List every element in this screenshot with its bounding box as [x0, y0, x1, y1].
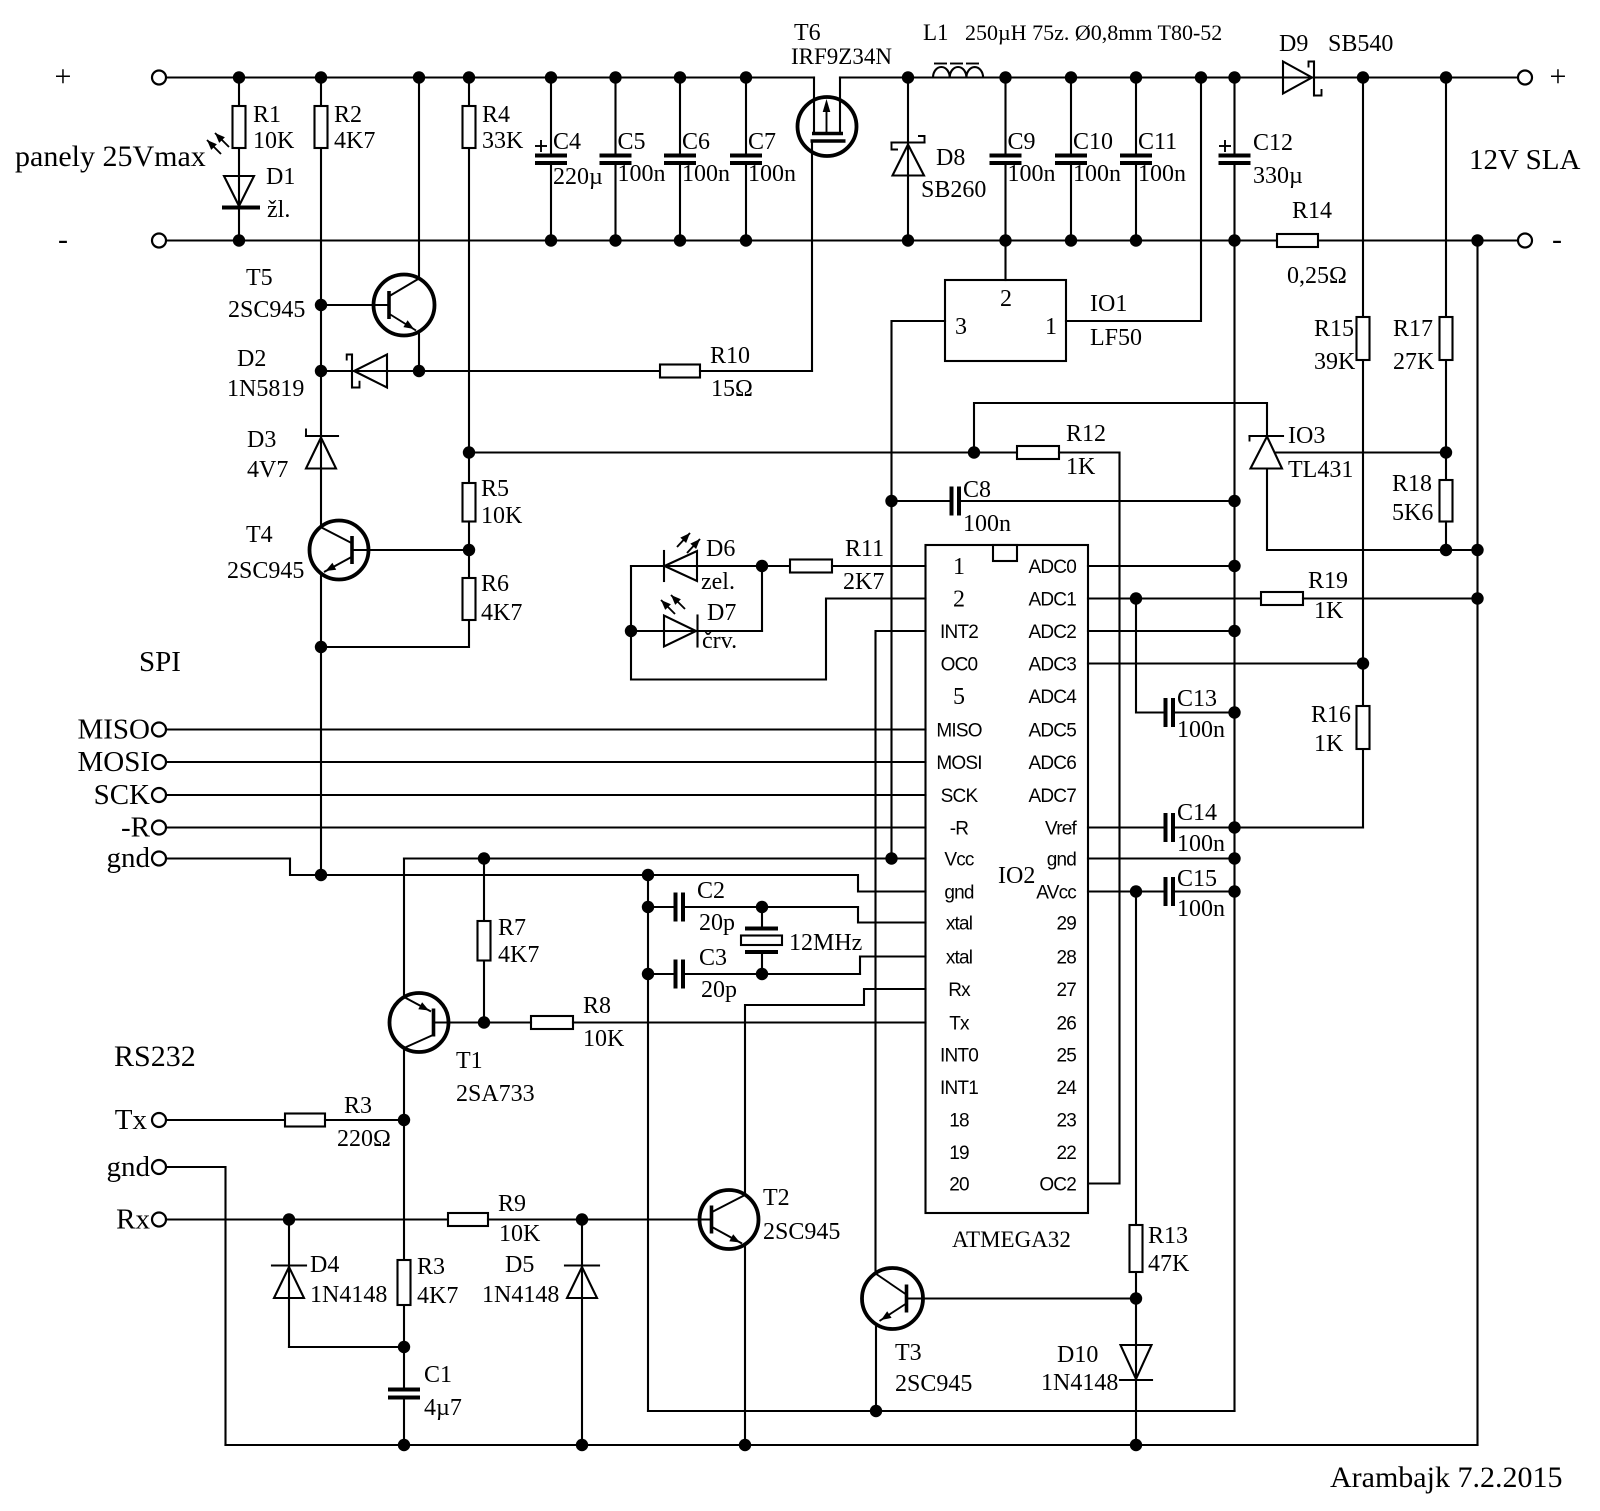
svg-text:D5: D5 [505, 1252, 534, 1278]
wire: T1 collector down to RS232 Tx node and R3 (4K7) [403, 1048, 405, 1260]
junction: T5 base node [315, 299, 327, 311]
svg-text:D2: D2 [237, 346, 266, 372]
wire: AVcc node down to R13 [1135, 892, 1137, 1226]
junction on - rail at x=551 [545, 234, 557, 246]
junction on + rail at x=419 [413, 71, 425, 83]
resistor R2 [320, 78, 322, 107]
junction: C14 right on analog ground column [1228, 821, 1240, 833]
wire: feedback row R5-R12 [469, 451, 1017, 453]
svg-text:R11: R11 [845, 536, 884, 562]
junction on - rail at x=1234.5 [1228, 234, 1240, 246]
capacitor C7 100n [745, 78, 747, 154]
svg-text:1K: 1K [1314, 731, 1344, 757]
terminal: SPI -R [152, 821, 166, 835]
wire: D4 anode to C1 node [289, 1346, 404, 1348]
svg-text:2SC945: 2SC945 [895, 1371, 972, 1397]
svg-text:gnd: gnd [944, 883, 974, 904]
svg-text:Vcc: Vcc [944, 850, 974, 871]
transistor T5 2SC945 [374, 275, 435, 336]
svg-text:20p: 20p [701, 977, 737, 1003]
wire: INT2 pin left and down to T3 collector [876, 631, 926, 1274]
svg-text:ADC6: ADC6 [1029, 753, 1077, 774]
svg-text:25: 25 [1056, 1046, 1076, 1067]
svg-text:100n: 100n [618, 161, 666, 187]
svg-text:C12: C12 [1253, 130, 1293, 156]
svg-text:xtal: xtal [946, 948, 972, 969]
svg-text:D8: D8 [936, 145, 965, 171]
junction on - rail at x=239 [233, 234, 245, 246]
junction on + rail at x=239 [233, 71, 245, 83]
svg-text:MISO: MISO [936, 721, 981, 742]
wire: IO3 anode down and right to ground return [1267, 469, 1478, 551]
junction on + rail at x=615.5 [609, 71, 621, 83]
wire: R9 to T2 base [488, 1218, 712, 1220]
junction: TL431 ref node (R17/R18) [1440, 446, 1452, 458]
svg-text:R15: R15 [1314, 316, 1354, 342]
svg-text:250µH 75z. Ø0,8mm T80-52: 250µH 75z. Ø0,8mm T80-52 [965, 20, 1222, 45]
junction: T3 emitter on ground bus [870, 1405, 882, 1417]
svg-text:C2: C2 [697, 878, 725, 904]
svg-text:29: 29 [1056, 914, 1076, 935]
wire: ADC3 row to R15/R16 divider [1088, 662, 1363, 664]
svg-text:4µ7: 4µ7 [424, 1395, 462, 1421]
terminal: RS232 Rx [152, 1213, 166, 1227]
wire: ADC1 row to R19 [1088, 597, 1261, 599]
svg-text:12V SLA: 12V SLA [1469, 144, 1581, 176]
svg-text:100n: 100n [682, 161, 730, 187]
svg-text:LF50: LF50 [1090, 325, 1142, 351]
svg-text:Rx: Rx [116, 1204, 150, 1236]
svg-text:22: 22 [1056, 1143, 1076, 1164]
junction: R4/R5/feedback node [463, 446, 475, 458]
svg-text:+: + [55, 60, 72, 93]
capacitor C6 100n [679, 78, 681, 154]
svg-text:C10: C10 [1073, 129, 1113, 155]
svg-text:D9: D9 [1279, 31, 1308, 57]
svg-text:27K: 27K [1393, 349, 1435, 375]
svg-text:MOSI: MOSI [936, 753, 981, 774]
svg-text:1K: 1K [1314, 598, 1344, 624]
svg-text:R2: R2 [334, 102, 362, 128]
wire: C2/C3 ground column [647, 875, 649, 1411]
terminal: SPI gnd [152, 852, 166, 866]
junction on - rail at x=1071 [1065, 234, 1077, 246]
terminal: SPI MISO [152, 723, 166, 737]
capacitor C4 220µ [550, 78, 552, 154]
svg-text:xtal: xtal [946, 914, 972, 935]
resistor R8 10K [531, 1016, 573, 1029]
junction on + rail at x=680 [674, 71, 686, 83]
junction: D10 at bottom rail [1130, 1439, 1142, 1451]
junction: D7 anode node on left riser [625, 625, 637, 637]
svg-text:R7: R7 [498, 915, 526, 941]
svg-text:C11: C11 [1138, 129, 1177, 155]
svg-text:1N5819: 1N5819 [227, 376, 304, 402]
svg-text:10K: 10K [583, 1026, 625, 1052]
terminal: RS232 Tx [152, 1113, 166, 1127]
resistor R16 1K [1362, 664, 1364, 707]
svg-text:0,25Ω: 0,25Ω [1287, 263, 1347, 289]
junction: R7 top on Vcc row [478, 852, 490, 864]
wire: TL431 branch loop up and right [974, 403, 1267, 453]
junction on + rail at x=1201 [1195, 71, 1207, 83]
svg-text:100n: 100n [1138, 161, 1186, 187]
terminal: SPI SCK [152, 788, 166, 802]
wire: + rail right segment (after T6, through L1 and D9 to battery +) [840, 76, 1518, 78]
transistor T1 2SA733 (PNP) [390, 993, 449, 1052]
wire: - rail left segment [166, 239, 1277, 241]
svg-text:47K: 47K [1148, 1251, 1190, 1277]
junction on + rail at x=1136 [1130, 71, 1142, 83]
junction on + rail at x=908 [902, 71, 914, 83]
wire: Vcc row from T1 emitter corner to IO2 Vcc pin [404, 857, 926, 859]
svg-text:R16: R16 [1311, 702, 1351, 728]
svg-text:ADC7: ADC7 [1029, 786, 1077, 807]
svg-text:C13: C13 [1177, 686, 1217, 712]
terminal: panel - input [152, 234, 166, 248]
svg-text:D7: D7 [707, 600, 736, 626]
svg-text:SB260: SB260 [921, 177, 986, 203]
junction on - rail at x=1005.5 [999, 234, 1011, 246]
capacitor C13 100n [1164, 698, 1168, 727]
svg-text:R8: R8 [583, 993, 611, 1019]
svg-text:D10: D10 [1057, 1342, 1098, 1368]
junction: D2 anode-side node on R2 column [315, 365, 327, 377]
wire: SPI MISO row to IO2 [166, 728, 926, 730]
svg-text:5: 5 [953, 684, 965, 710]
wire: T2 emitter to bottom rail [744, 1244, 746, 1445]
svg-text:-R: -R [121, 812, 151, 844]
wire: R15 to ADC3 node [1362, 360, 1364, 664]
svg-text:C4: C4 [553, 129, 581, 155]
svg-text:MISO: MISO [77, 714, 150, 746]
capacitor C15 100n [1164, 877, 1168, 906]
wire: R3 bottom to C1 [403, 1305, 405, 1388]
wire: bottom ground rail [226, 1444, 1478, 1446]
wire: ADC0 row [1088, 565, 1235, 567]
wire: SPI SCK row to IO2 [166, 794, 926, 796]
junction on + rail at x=1005.5 [999, 71, 1011, 83]
svg-text:220Ω: 220Ω [337, 1126, 391, 1152]
svg-text:20: 20 [949, 1175, 969, 1196]
shunt regulator IO3 TL431 (zener symbol) [1250, 435, 1284, 437]
diode D9 SB540 (battery isolation) [1283, 62, 1312, 94]
wire: - rail right segment (after R14) [1318, 239, 1518, 241]
svg-text:D3: D3 [247, 427, 276, 453]
svg-text:C6: C6 [682, 129, 710, 155]
svg-text:R14: R14 [1292, 198, 1332, 224]
junction: T2 emitter at bottom rail [739, 1439, 751, 1451]
svg-text:2SA733: 2SA733 [456, 1081, 535, 1107]
svg-text:Tx: Tx [949, 1014, 970, 1035]
LED D7 (red) [664, 616, 696, 647]
svg-text:IO1: IO1 [1090, 291, 1127, 317]
junction on - rail at x=680 [674, 234, 686, 246]
junction: crystal bottom node [756, 968, 768, 980]
svg-text:Rx: Rx [948, 980, 971, 1001]
svg-text:2SC945: 2SC945 [227, 558, 304, 584]
wire: xtal1 jog into IO2 [858, 907, 926, 923]
svg-text:R1: R1 [253, 102, 281, 128]
svg-text:-: - [1552, 223, 1562, 256]
wire: + input rail left segment (panel side) [166, 76, 814, 78]
wire: IO1 pin3 (output Vcc) left and down to Vcc row [892, 321, 946, 859]
svg-text:1N4148: 1N4148 [1041, 1370, 1118, 1396]
wire: R11 to IO2 pin 1 [832, 565, 926, 567]
svg-text:10K: 10K [253, 128, 295, 154]
svg-text:C15: C15 [1177, 866, 1217, 892]
svg-text:2K7: 2K7 [843, 569, 884, 595]
junction on + rail at x=746 [740, 71, 752, 83]
svg-text:RS232: RS232 [114, 1040, 196, 1073]
terminal: panel + input [152, 71, 166, 85]
wire: xtal2 jog into IO2 [860, 957, 926, 975]
wire: D6-D7 right riser [761, 566, 763, 631]
svg-text:T1: T1 [456, 1048, 483, 1074]
junction: Vcc row at riser [885, 852, 897, 864]
svg-text:R3: R3 [417, 1254, 445, 1280]
wire: R7 to T1 base node [483, 961, 485, 1023]
svg-text:2SC945: 2SC945 [763, 1219, 840, 1245]
svg-text:4K7: 4K7 [481, 600, 522, 626]
resistor R13 47K [1130, 1225, 1143, 1272]
svg-text:10K: 10K [481, 503, 523, 529]
svg-text:100n: 100n [963, 511, 1011, 537]
IC IO1 LF50 voltage regulator [945, 280, 1066, 361]
svg-text:5K6: 5K6 [1392, 500, 1433, 526]
junction: T4 base / R5-R6 divider node [463, 544, 475, 556]
junction: ADC2 at analog ground column [1228, 625, 1240, 637]
IC IO2 ATMEGA32 body [926, 545, 1089, 1213]
svg-text:23: 23 [1056, 1111, 1076, 1132]
svg-text:T4: T4 [246, 522, 273, 548]
junction on + rail at x=321 [315, 71, 327, 83]
svg-text:R13: R13 [1148, 1223, 1188, 1249]
wire: R4 down to feedback row (crosses D2 row) [468, 148, 470, 483]
junction: D2 cathode-row node at T5 emitter [413, 365, 425, 377]
capacitor C2 20p [648, 906, 674, 908]
svg-text:R5: R5 [481, 476, 509, 502]
wire: C1 to bottom rail [403, 1400, 405, 1446]
svg-text:T6: T6 [794, 20, 821, 46]
wire: SPI MOSI row to IO2 [166, 761, 926, 763]
svg-text:Tx: Tx [115, 1104, 148, 1136]
svg-text:10K: 10K [499, 1221, 541, 1247]
svg-text:2: 2 [953, 587, 965, 613]
svg-text:ADC2: ADC2 [1029, 622, 1077, 643]
wire: IO2 right gnd pin row [1088, 857, 1235, 859]
junction: ADC1 / C13 branch node [1130, 592, 1142, 604]
svg-text:2: 2 [1000, 286, 1012, 312]
svg-text:R6: R6 [481, 571, 509, 597]
svg-text:gnd: gnd [107, 842, 151, 874]
svg-text:4K7: 4K7 [417, 1283, 458, 1309]
diode D5 1N4148 [581, 1220, 583, 1446]
svg-text:zel.: zel. [701, 569, 735, 595]
svg-text:1N4148: 1N4148 [482, 1282, 559, 1308]
label: C12 + polarity mark [1219, 145, 1231, 147]
resistor R5 [463, 483, 476, 522]
svg-text:20p: 20p [699, 910, 735, 936]
wire: right ground return column [1476, 241, 1478, 1446]
diode D8 SB260 (freewheel, cathode up) [907, 78, 909, 241]
svg-text:ADC5: ADC5 [1029, 721, 1077, 742]
wire: R18 bottom to IO3 anode row [1445, 522, 1447, 551]
capacitor C11 100n [1135, 78, 1137, 154]
resistor R4 [468, 78, 470, 107]
svg-text:ADC0: ADC0 [1029, 557, 1077, 578]
resistor R19 1K [1261, 592, 1303, 605]
wire: R17 to TL431 ref node [1445, 360, 1447, 453]
junction: D4 top node [283, 1213, 295, 1225]
junction: Tx node at T1 collector [398, 1114, 410, 1126]
svg-text:ADC4: ADC4 [1029, 687, 1078, 708]
resistor R17 27K [1445, 78, 1447, 318]
wire: SPI gnd row with jog to IO2 gnd pin [166, 859, 926, 892]
svg-text:3: 3 [955, 314, 967, 340]
transistor T2 2SC945 [700, 1190, 759, 1249]
resistor R10 [660, 365, 700, 378]
wire: analog ground column from - rail down to bottom ground bus [1233, 241, 1235, 1412]
svg-text:SPI: SPI [139, 646, 181, 678]
svg-text:100n: 100n [1073, 161, 1121, 187]
capacitor C3 20p [648, 973, 674, 975]
wire: T5 emitter down to D2 node [418, 332, 420, 372]
svg-text:gnd: gnd [1047, 850, 1077, 871]
wire: ADC2 row [1088, 630, 1235, 632]
svg-text:R18: R18 [1392, 471, 1432, 497]
junction: T1 base / R8 node [478, 1016, 490, 1028]
svg-text:4K7: 4K7 [334, 128, 375, 154]
svg-text:INT2: INT2 [940, 622, 978, 643]
junction: R19 right on return column [1471, 592, 1483, 604]
junction: C1 at bottom rail [398, 1439, 410, 1451]
junction: AVcc / R13 branch node [1130, 885, 1142, 897]
wire: AVcc row [1088, 890, 1164, 892]
svg-text:INT1: INT1 [940, 1078, 978, 1099]
svg-text:OC2: OC2 [1039, 1175, 1076, 1196]
junction: gnd pin at analog ground column [1228, 852, 1240, 864]
svg-text:ADC3: ADC3 [1029, 655, 1077, 676]
svg-text:100n: 100n [1008, 161, 1056, 187]
wire: R2 down through T5 base node and D2 node to D3 [320, 148, 322, 528]
wire: D6/D7 left loop down to pin2 return [631, 566, 926, 680]
capacitor C8 100n [892, 500, 951, 502]
svg-text:INT0: INT0 [940, 1046, 978, 1067]
svg-text:AVcc: AVcc [1036, 883, 1076, 904]
svg-text:19: 19 [949, 1143, 969, 1164]
label: C4 + polarity mark [535, 145, 547, 147]
wire: R8 to IO2 Tx pin [573, 1021, 926, 1023]
resistor R3 220ohm (series Tx) [285, 1114, 325, 1127]
svg-text:100n: 100n [1177, 896, 1225, 922]
wire: Rx terminal to D4 node [166, 1218, 448, 1220]
junction on + rail at x=1071 [1065, 71, 1077, 83]
junction on + rail at x=1234.5 [1228, 71, 1240, 83]
junction on - rail at x=1136 [1130, 234, 1142, 246]
svg-text:OC0: OC0 [941, 655, 978, 676]
junction: ADC3 sense node [1357, 657, 1369, 669]
svg-text:1K: 1K [1066, 454, 1096, 480]
svg-text:-R: -R [950, 819, 969, 840]
svg-text:žl.: žl. [267, 197, 290, 223]
resistor R1 [238, 78, 240, 107]
svg-text:T3: T3 [895, 1340, 922, 1366]
svg-text:C3: C3 [699, 945, 727, 971]
svg-text:2SC945: 2SC945 [228, 297, 305, 323]
terminal: battery + output [1518, 71, 1532, 85]
svg-text:1N4148: 1N4148 [310, 1282, 387, 1308]
wire: IO2 Rx pin left, jog down, to T2 collector [745, 989, 926, 1193]
svg-text:ATMEGA32: ATMEGA32 [952, 1227, 1071, 1252]
svg-text:4V7: 4V7 [247, 457, 288, 483]
junction: C13 right on analog ground column [1228, 706, 1240, 718]
svg-text:R17: R17 [1393, 316, 1433, 342]
svg-text:TL431: TL431 [1288, 457, 1353, 483]
wire: R6 bottom to T4 emitter line [321, 620, 469, 647]
resistor R9 10K [448, 1213, 488, 1226]
resistor R3 4K7 (bias) [398, 1260, 411, 1305]
svg-text:Vref: Vref [1045, 819, 1077, 840]
svg-text:C14: C14 [1177, 800, 1217, 826]
wire: T5 collector up to + rail (crosses - rail) [418, 78, 420, 279]
svg-text:15Ω: 15Ω [711, 376, 753, 402]
svg-text:4K7: 4K7 [498, 942, 539, 968]
svg-text:33K: 33K [482, 128, 524, 154]
svg-text:-: - [58, 223, 68, 256]
resistor R14 shunt 0,25ohm [1277, 234, 1318, 247]
junction on + rail at x=551 [545, 71, 557, 83]
wire: RS232 gnd down to bottom rail [166, 1167, 226, 1445]
svg-text:R4: R4 [482, 102, 510, 128]
junction: C8 right on analog ground column [1228, 495, 1240, 507]
wire: T1 base node to R8 [484, 1021, 531, 1023]
svg-text:R19: R19 [1308, 568, 1348, 594]
junction: R6 return node on T4 emitter line [315, 641, 327, 653]
junction: D6/D7 right node [756, 560, 768, 572]
svg-text:D6: D6 [706, 536, 735, 562]
junction: feedback node to TL431 branch [968, 446, 980, 458]
capacitor C5 100n [614, 78, 616, 154]
junction: T3 base / R13 / D10 node [1130, 1292, 1142, 1304]
terminal: SPI MOSI [152, 755, 166, 769]
svg-text:ADC1: ADC1 [1029, 590, 1077, 611]
svg-text:Arambajk 7.2.2015: Arambajk 7.2.2015 [1330, 1461, 1562, 1494]
svg-text:C8: C8 [963, 477, 991, 503]
resistor R15 39K [1362, 78, 1364, 318]
svg-text:SCK: SCK [941, 786, 979, 807]
junction: C8 top on Vcc riser [885, 495, 897, 507]
wire: C13 branch from ADC1 node [1136, 599, 1164, 713]
resistor R18 5K6 [1445, 453, 1447, 481]
junction on - rail at x=746 [740, 234, 752, 246]
svg-text:L1: L1 [923, 20, 949, 45]
capacitor C9 100n [1004, 78, 1006, 154]
svg-text:SCK: SCK [94, 779, 150, 811]
svg-text:IO3: IO3 [1288, 423, 1325, 449]
svg-text:24: 24 [1056, 1078, 1077, 1099]
junction: IO3 anode row at R18 [1440, 544, 1452, 556]
resistor R6 [463, 578, 476, 620]
svg-text:27: 27 [1056, 980, 1076, 1001]
wire: R12 right, down to OC2 pin [1059, 453, 1120, 1184]
svg-text:C1: C1 [424, 1362, 452, 1388]
diode D2 1N5819 (Schottky, cathode left) [321, 370, 660, 372]
wire: R3 to T1 collector node [325, 1119, 404, 1121]
junction: C3 left [642, 968, 654, 980]
diode D10 1N4148 (cathode down) [1121, 1345, 1152, 1379]
svg-text:R12: R12 [1066, 421, 1106, 447]
